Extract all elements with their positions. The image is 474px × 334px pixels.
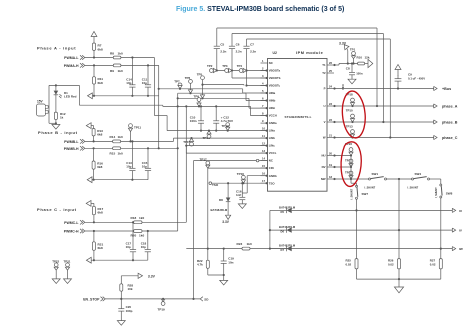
svg-text:IV: IV (459, 229, 462, 233)
svg-text:TP16: TP16 (237, 172, 245, 176)
resistor R21 (92, 242, 95, 251)
svg-text:TSO: TSO (269, 181, 276, 185)
pin 14 no-connect circle (256, 159, 259, 162)
port IW (452, 247, 455, 251)
svg-text:19: 19 (329, 163, 332, 167)
diode D8 wire (227, 183, 229, 197)
wire C5 to VBOOT pin (217, 70, 268, 72)
resistor R9 (113, 64, 121, 67)
svg-text:HINc: HINc (269, 106, 276, 110)
wire PWMA-L (85, 57, 113, 59)
svg-text:STGIB30M60TS-L: STGIB30M60TS-L (285, 115, 312, 119)
svg-text:IW: IW (459, 247, 463, 251)
test point TP9 (197, 98, 201, 102)
svg-text:1nF: 1nF (236, 193, 242, 197)
svg-text:I_SHUNT: I_SHUNT (351, 188, 354, 199)
diode D8 (226, 198, 231, 202)
pin 15 CIN (261, 167, 268, 169)
svg-text:21: 21 (329, 134, 332, 138)
wire trunk PWMC-L vertical (185, 146, 187, 223)
svg-text:TP15: TP15 (183, 140, 190, 144)
svg-text:10p: 10p (141, 245, 146, 249)
wire SW1 to SW4 (387, 178, 413, 180)
wire R17 bottom (93, 215, 95, 223)
wire PWMC-L to bus (142, 221, 186, 223)
svg-text:HINa: HINa (269, 91, 276, 95)
wire P to +Bus (334, 88, 434, 90)
wire 15V left vertical (48, 85, 50, 123)
resistor R26 (398, 230, 400, 259)
wire shunt ground bus (357, 278, 441, 280)
svg-text:5: 5 (262, 89, 264, 93)
test point TP4 (239, 69, 243, 73)
pin 12 LINc (261, 145, 268, 147)
wire CIN rail (208, 167, 268, 169)
svg-text:8: 8 (262, 112, 264, 116)
svg-text:EN_STOP: EN_STOP (83, 297, 100, 301)
svg-text:W: W (323, 136, 326, 140)
svg-text:phase_B: phase_B (442, 121, 458, 125)
pin 26 T1 (327, 64, 334, 66)
svg-text:1k: 1k (60, 116, 64, 120)
wire R23 to diodes (250, 248, 452, 250)
annotation ellipse lower (341, 142, 361, 187)
wire LED top (55, 85, 57, 90)
wire shunt U vertical (350, 156, 352, 184)
svg-text:TP10: TP10 (346, 108, 353, 112)
resistor R14 (113, 140, 121, 143)
wire SD vertical (193, 161, 195, 299)
ground CIN filter (223, 275, 225, 280)
svg-text:10p: 10p (126, 245, 131, 249)
svg-text:10p: 10p (142, 164, 147, 168)
wire CIN vertical (207, 168, 209, 249)
svg-text:6k8: 6k8 (97, 133, 102, 137)
svg-text:PWMA-L: PWMA-L (64, 56, 79, 60)
switch SW7 (356, 185, 358, 187)
svg-text:20: 20 (329, 152, 332, 156)
pin 25 T2 (327, 72, 334, 74)
port phase_C (434, 135, 437, 139)
resistor R28 (120, 284, 123, 291)
pin 3 VBOOTb (261, 77, 268, 79)
wire HINa rail (159, 88, 243, 90)
capacitor C11 (147, 65, 149, 84)
pin 21 W (327, 137, 334, 139)
svg-text:P: P (324, 87, 326, 91)
svg-text:PWMC-L: PWMC-L (64, 221, 79, 225)
wire PWMB-H to bus (121, 147, 178, 149)
pin 20 NU (327, 155, 334, 157)
svg-text:TP1: TP1 (350, 48, 356, 52)
wire LINc rail (186, 145, 267, 147)
wire NW rail (334, 178, 369, 180)
svg-text:phase_C: phase_C (442, 136, 458, 140)
svg-text:R9: R9 (110, 69, 114, 73)
wire EN_STOP rail (106, 298, 201, 300)
svg-text:TP14: TP14 (203, 136, 211, 140)
svg-text:C7: C7 (250, 42, 254, 46)
wire shunt V vertical (398, 179, 400, 230)
svg-text:BAT48JFILM: BAT48JFILM (279, 205, 296, 209)
wire NV rail (334, 166, 351, 168)
svg-text:TP9: TP9 (194, 94, 200, 98)
wire R16 bottom (93, 169, 95, 180)
svg-text:10n: 10n (228, 260, 233, 264)
wire R11 bottom (93, 84, 95, 96)
test point TP16 (242, 175, 246, 179)
svg-text:TSO: TSO (212, 183, 219, 187)
wire trunk PWMA-H vertical (158, 65, 160, 148)
svg-text:3: 3 (262, 74, 264, 78)
wire VCCL rail (185, 146, 187, 154)
svg-text:10: 10 (262, 127, 265, 131)
pin 13 VCCL (261, 152, 268, 154)
port IV (452, 228, 455, 232)
svg-text:VBOOTc: VBOOTc (269, 84, 281, 88)
svg-text:C5: C5 (220, 42, 224, 46)
svg-text:12: 12 (262, 142, 265, 146)
svg-text:0.1 uF - 450V: 0.1 uF - 450V (408, 76, 425, 80)
wire C5 top loop (217, 27, 377, 29)
svg-text:1k0: 1k0 (118, 51, 123, 55)
wire VBOOTc row extension (203, 84, 245, 86)
power 3.3V EN_STOP (120, 276, 122, 284)
ground LED branch (52, 125, 60, 130)
test point TP12 (226, 123, 230, 127)
svg-text:TP7: TP7 (174, 79, 180, 83)
svg-text:16: 16 (262, 172, 265, 176)
wire C7 to VBOOT pin (247, 85, 268, 87)
pin 19 NV (327, 166, 334, 168)
power arrow VCC phase A (91, 32, 97, 37)
pin 2 VBOOTa (261, 70, 268, 72)
svg-text:U: U (323, 104, 325, 108)
svg-text:Phase C - input: Phase C - input (37, 207, 77, 212)
wire PWMA-H (85, 64, 113, 66)
wire SW7 to sense U (356, 183, 358, 186)
wire trunk PWMB-L vertical (173, 138, 175, 141)
resistor R27 (440, 249, 442, 259)
svg-text:NC: NC (269, 159, 273, 163)
svg-text:7: 7 (262, 104, 264, 108)
svg-text:2.2n: 2.2n (220, 49, 226, 53)
wire C19 R22 join (208, 274, 224, 276)
svg-text:PWMB-H: PWMB-H (64, 147, 79, 151)
svg-text:Figure 5. STEVAL-IPM30B board: Figure 5. STEVAL-IPM30B board schematic … (176, 6, 344, 13)
wire T1 rail (334, 64, 339, 66)
svg-text:I_SHUNT: I_SHUNT (364, 186, 375, 189)
LED D1 (54, 91, 59, 95)
test point TP11 (129, 124, 133, 128)
resistor R25 (356, 210, 358, 258)
ground TP22 (52, 279, 60, 284)
svg-text:14: 14 (262, 157, 265, 161)
wire R12 to ground (55, 120, 57, 124)
capacitor C7 bootstrap (246, 39, 248, 46)
switch SW8 (440, 184, 442, 186)
pin 23 U (327, 105, 334, 107)
test point TP7 (178, 83, 182, 87)
svg-text:IU: IU (459, 209, 462, 213)
capacitor C8 (351, 62, 353, 64)
svg-text:17: 17 (262, 179, 265, 183)
svg-text:TP5: TP5 (197, 72, 203, 76)
resistor R23 (242, 247, 250, 250)
ground TP21 (64, 279, 72, 284)
wire C6 to VBOOT pin (232, 77, 268, 79)
arrow phase A return (88, 93, 93, 99)
ground C20 (117, 321, 125, 326)
wire NU rail (334, 155, 351, 157)
svg-text:TP2: TP2 (207, 64, 213, 68)
svg-text:22: 22 (329, 118, 332, 122)
resistor R15 (113, 147, 121, 150)
test point TP15 (190, 142, 194, 146)
svg-text:0.02: 0.02 (346, 263, 352, 267)
pin 22 V (327, 121, 334, 123)
op-amp U2 IPM module body (268, 59, 328, 192)
wire PWMC-H to bus (142, 230, 178, 232)
pin 4 VBOOTc (261, 85, 268, 87)
svg-text:10p: 10p (126, 81, 131, 85)
svg-text:U2: U2 (273, 51, 277, 55)
svg-text:25: 25 (329, 69, 332, 73)
power arrow phase B (86, 123, 91, 129)
svg-text:SD: SD (204, 297, 209, 301)
power arrow phase C (86, 201, 91, 207)
wire W to phase_C (334, 137, 434, 139)
capacitor C5 bootstrap (216, 28, 218, 46)
svg-text:+Bus: +Bus (442, 87, 451, 91)
power 3.3V below D8 (227, 202, 229, 215)
svg-text:3.3V: 3.3V (222, 220, 229, 224)
svg-text:PWMC-H: PWMC-H (64, 230, 79, 234)
pin 11 LINb (261, 137, 268, 139)
wire trunk PWMB-H vertical (177, 93, 179, 231)
svg-text:BAT48JFILM: BAT48JFILM (279, 225, 296, 229)
svg-text:TP12: TP12 (222, 124, 230, 128)
svg-text:NC: NC (269, 61, 273, 65)
svg-text:I_SHUNT: I_SHUNT (407, 186, 418, 189)
svg-text:C6: C6 (236, 42, 240, 46)
svg-text:phase_A: phase_A (442, 105, 458, 109)
wire C6 top loop (232, 33, 383, 35)
svg-text:SW7: SW7 (362, 192, 369, 196)
svg-text:6k8: 6k8 (98, 81, 103, 85)
wire 15V riser (78, 85, 80, 105)
flag SD (200, 297, 203, 301)
capacitor C15 (147, 148, 149, 168)
resistor R18 (134, 221, 142, 224)
resistor R13 (92, 129, 95, 136)
svg-text:Phase B - input: Phase B - input (38, 130, 78, 135)
wire R21 bottom (93, 250, 95, 260)
svg-text:TP19: TP19 (158, 307, 166, 311)
svg-text:6k8: 6k8 (98, 246, 103, 250)
svg-text:SW4: SW4 (415, 172, 422, 176)
ground C8 (348, 79, 356, 84)
wire R7 to PWMA-L (93, 50, 95, 57)
port phase_A (434, 104, 437, 108)
test point TP5 (201, 76, 205, 80)
wire PWMA-H to bus (121, 64, 159, 66)
capacitor C17 (132, 222, 134, 249)
resistor R10 (358, 62, 365, 65)
wire V to phase_B (334, 121, 434, 123)
arrow phase C return (86, 257, 91, 263)
svg-text:R10: R10 (357, 56, 363, 60)
svg-text:T2: T2 (322, 71, 326, 75)
pin 5 HINa (261, 92, 268, 94)
wire VCCH branch (250, 106, 252, 115)
svg-text:26: 26 (329, 61, 332, 65)
capacitor C14 (131, 58, 133, 85)
svg-text:VBOOTb: VBOOTb (269, 76, 281, 80)
svg-text:LINc: LINc (269, 144, 276, 148)
svg-text:TP6: TP6 (185, 76, 191, 80)
svg-text:13: 13 (262, 149, 265, 153)
pin 16 GNDb (261, 175, 268, 177)
wire PWMC-L (85, 221, 134, 223)
svg-text:LINa: LINa (269, 129, 276, 133)
svg-text:R18: R18 (131, 216, 137, 220)
svg-text:6k8: 6k8 (97, 165, 102, 169)
svg-text:15: 15 (262, 164, 265, 168)
svg-text:2: 2 (262, 67, 264, 71)
svg-text:2.2n: 2.2n (236, 49, 242, 53)
capacitor C20 (120, 299, 122, 309)
switch SW1 (369, 178, 371, 180)
wire SD to pin14 (194, 160, 257, 162)
svg-text:15V: 15V (37, 100, 44, 104)
svg-text:R15: R15 (110, 152, 116, 156)
wire GNDb rail (247, 175, 267, 177)
svg-text:TP3: TP3 (222, 64, 228, 68)
svg-text:I_SHUNT: I_SHUNT (435, 187, 438, 198)
wire LINa rail (167, 130, 267, 132)
arrow phase B return (87, 177, 92, 183)
svg-text:11: 11 (262, 134, 265, 138)
wire trunk PWMA-L vertical (153, 58, 155, 116)
svg-text:VCCL: VCCL (269, 151, 277, 155)
wire sense U collect (270, 209, 279, 211)
resistor R12 (54, 112, 57, 120)
wire shunt sense rail (186, 248, 242, 250)
pin 7 HINc (261, 107, 268, 109)
svg-text:R8: R8 (110, 51, 114, 55)
svg-text:TP17: TP17 (200, 158, 208, 162)
svg-text:100n: 100n (190, 119, 197, 123)
svg-text:24: 24 (329, 85, 332, 89)
wire SW8 to sense W (440, 198, 442, 249)
svg-text:SW1: SW1 (372, 172, 379, 176)
wire SW4 to SW8 (430, 178, 441, 180)
switch SW4 (412, 178, 414, 180)
svg-text:10p: 10p (142, 81, 147, 85)
svg-text:VCCH: VCCH (269, 114, 277, 118)
svg-text:PWMA-H: PWMA-H (64, 64, 79, 68)
svg-text:R23: R23 (237, 242, 243, 246)
resistor R11 (93, 77, 96, 84)
pin 9 GNDa (261, 122, 268, 124)
wire U to phase_A (334, 105, 434, 107)
svg-text:NV: NV (322, 165, 326, 169)
svg-text:D8: D8 (219, 198, 223, 202)
svg-text:6k8: 6k8 (98, 211, 103, 215)
svg-text:T1: T1 (322, 63, 326, 67)
power arrow bus (397, 70, 399, 77)
resistor R20 (134, 230, 142, 233)
capacitor C13 (131, 141, 133, 168)
svg-text:IPM module: IPM module (296, 50, 324, 55)
svg-text:4: 4 (262, 82, 264, 86)
svg-text:100p: 100p (126, 309, 133, 313)
svg-text:GNDa: GNDa (269, 121, 277, 125)
pin 17 TSO (261, 182, 268, 184)
svg-text:HINb: HINb (269, 99, 276, 103)
svg-text:BAT48JFILM: BAT48JFILM (211, 208, 228, 212)
wire VCC rail from 15V (79, 104, 162, 106)
resistor R22 (207, 249, 209, 261)
svg-text:LINb: LINb (269, 136, 276, 140)
test point TP8 (189, 80, 193, 84)
test point TP19 (161, 299, 165, 302)
wire R11 top (93, 65, 95, 76)
resistor R17 (92, 206, 95, 215)
pin 6 HINb (261, 100, 268, 102)
svg-text:4.7k: 4.7k (197, 263, 203, 267)
capacitor C9 bus (397, 81, 399, 88)
test point TP2 (210, 69, 214, 73)
wire TP11 stub (130, 132, 132, 142)
wire R13 bottom (93, 136, 95, 142)
pin 18 NW (327, 178, 334, 180)
ground C16 (238, 204, 246, 209)
svg-text:TP11: TP11 (134, 126, 141, 130)
annotation ellipse upper (340, 90, 367, 139)
svg-text:0.02: 0.02 (430, 263, 436, 267)
svg-text:NW: NW (321, 177, 326, 181)
svg-text:10k: 10k (128, 287, 133, 291)
svg-text:6: 6 (262, 97, 264, 101)
wire PWMB-H (85, 147, 113, 149)
svg-text:R20: R20 (131, 233, 137, 237)
svg-text:12k: 12k (365, 56, 370, 60)
pin 14 NC (261, 160, 268, 162)
capacitor C12 electrolytic (215, 106, 217, 120)
wire PWMA-L to bus (121, 57, 154, 59)
arrow FAULT out (365, 63, 368, 65)
port phase_B (434, 120, 437, 124)
svg-text:TP4: TP4 (237, 64, 243, 68)
wire R16 top (93, 148, 95, 161)
capacitor C19 (223, 249, 225, 261)
svg-text:V: V (324, 120, 326, 124)
svg-text:TP13: TP13 (346, 124, 353, 128)
svg-text:LED Red: LED Red (64, 95, 77, 99)
svg-text:9: 9 (262, 119, 264, 123)
wire C7 top loop (247, 38, 391, 40)
svg-text:NU: NU (321, 154, 325, 158)
test point TP14 (207, 135, 211, 139)
capacitor C18 (147, 231, 149, 250)
svg-text:23: 23 (329, 102, 332, 106)
svg-text:1k0: 1k0 (118, 69, 123, 73)
pin 1 NC (261, 62, 268, 64)
svg-text:1k0: 1k0 (139, 233, 144, 237)
wire R21 top (93, 231, 95, 242)
